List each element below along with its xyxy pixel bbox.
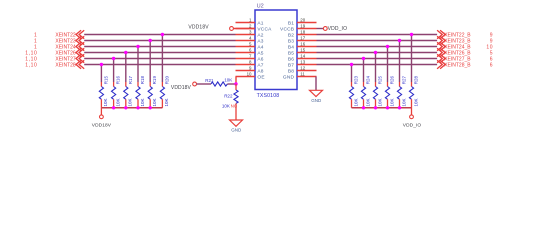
svg-text:VCCA: VCCA <box>257 27 272 33</box>
pin 4 stub <box>236 40 256 42</box>
svg-text:13: 13 <box>300 60 305 65</box>
svg-text:10: 10 <box>247 72 252 77</box>
svg-text:1,10: 1,10 <box>25 63 37 69</box>
wire XEINT22_B row <box>317 34 438 36</box>
junction XEINT26_B <box>374 51 377 54</box>
svg-text:A3: A3 <box>257 39 263 45</box>
svg-text:10K: 10K <box>389 98 394 106</box>
svg-text:R24: R24 <box>366 76 371 85</box>
chevron XEINT23 <box>76 36 81 44</box>
ground (R22) <box>230 120 243 126</box>
wire VCCB to VDD_IO <box>317 28 324 30</box>
svg-text:VDD18V: VDD18V <box>171 85 192 91</box>
svg-text:B5: B5 <box>288 51 294 57</box>
svg-text:B6: B6 <box>288 57 294 63</box>
svg-text:R16: R16 <box>116 76 121 85</box>
svg-text:R21: R21 <box>205 78 214 83</box>
junction rail <box>112 106 115 109</box>
wire drop XEINT22_B to resistor <box>411 35 413 83</box>
svg-text:A8: A8 <box>257 69 263 75</box>
wire XEINT27 row <box>84 58 235 60</box>
svg-text:VCCB: VCCB <box>280 27 294 33</box>
wire XEINT22 row <box>84 34 235 36</box>
junction XEINT23_B <box>398 39 401 42</box>
wire drop XEINT24_B to resistor <box>387 47 389 83</box>
svg-text:OE: OE <box>257 75 264 81</box>
chevron XEINT28 <box>76 60 81 68</box>
wire left pull-up rail <box>101 107 162 109</box>
wire R21 to OE node <box>227 83 236 85</box>
svg-text:R15: R15 <box>103 76 108 85</box>
resistor R24 10K <box>363 82 365 87</box>
ground (pin 11) <box>310 90 323 96</box>
power symbol circle VDD_IO <box>323 27 327 31</box>
svg-text:A5: A5 <box>257 51 263 57</box>
svg-text:GND: GND <box>311 98 322 103</box>
svg-text:A2: A2 <box>257 33 263 39</box>
power VDD_IO (right rail) <box>411 108 413 115</box>
wire XEINT28 row <box>84 64 235 66</box>
svg-text:NC: NC <box>231 103 238 108</box>
pin 2 stub <box>236 28 256 30</box>
wire drop XEINT22 to resistor <box>161 35 163 83</box>
svg-text:R25: R25 <box>378 76 383 85</box>
resistor R18 10K <box>137 82 139 87</box>
wire drop XEINT27_B to resistor <box>363 59 365 83</box>
wire XEINT28_B row <box>317 64 438 66</box>
resistor R26 10K <box>387 82 389 87</box>
svg-text:U2: U2 <box>257 4 264 10</box>
chevron XEINT22 <box>76 30 81 38</box>
svg-text:B4: B4 <box>288 45 294 51</box>
IC U2 body (TXS0108 level shifter) <box>255 10 297 90</box>
junction XEINT24 <box>136 45 139 48</box>
svg-text:10K: 10K <box>140 98 145 106</box>
svg-text:R23: R23 <box>354 76 359 85</box>
junction XEINT26 <box>124 51 127 54</box>
resistor R20 10K <box>161 82 163 87</box>
junction rail <box>124 106 127 109</box>
junction XEINT28 <box>100 63 103 66</box>
pin 6 stub <box>236 52 256 54</box>
wire XEINT24_B row <box>317 46 438 48</box>
wire OE node up to pin 10 <box>235 77 237 85</box>
junction rail <box>136 106 139 109</box>
svg-text:VDD_IO: VDD_IO <box>328 26 348 32</box>
chevron XEINT28_B <box>437 60 442 68</box>
wire drop XEINT23_B to resistor <box>399 41 401 83</box>
chevron XEINT23_B <box>437 36 442 44</box>
junction XEINT22_B <box>410 33 413 36</box>
svg-text:GND: GND <box>283 75 295 81</box>
resistor R16 10K <box>113 82 115 87</box>
svg-text:R19: R19 <box>152 76 157 85</box>
pin 15 stub <box>297 52 317 54</box>
junction XEINT23 <box>149 39 152 42</box>
wire right pull-up rail <box>352 107 412 109</box>
resistor R27 10K <box>399 82 401 87</box>
pin 11 stub <box>297 76 317 78</box>
resistor R21 10K <box>211 82 227 86</box>
svg-text:18: 18 <box>300 30 305 35</box>
resistor R23 10K <box>351 82 353 87</box>
wire VDD18V to R21 <box>197 83 212 85</box>
junction OE node <box>234 82 237 85</box>
svg-text:R27: R27 <box>402 76 407 85</box>
pin 18 stub <box>297 34 317 36</box>
svg-text:R26: R26 <box>390 76 395 85</box>
svg-text:11: 11 <box>300 72 305 77</box>
pin 9 stub <box>236 70 256 72</box>
svg-text:10K: 10K <box>353 98 358 106</box>
chevron XEINT24 <box>76 42 81 50</box>
svg-text:10K: 10K <box>401 98 406 106</box>
svg-text:10K: 10K <box>152 98 157 106</box>
junction rail <box>362 106 365 109</box>
pin 5 stub <box>236 46 256 48</box>
junction rail <box>386 106 389 109</box>
svg-text:B1: B1 <box>288 21 294 27</box>
svg-text:10K: 10K <box>224 78 232 83</box>
pin 13 stub <box>297 64 317 66</box>
svg-text:A1: A1 <box>257 21 263 27</box>
svg-text:TXS0108: TXS0108 <box>257 93 280 99</box>
junction rail <box>374 106 377 109</box>
resistor R28 10K <box>411 82 413 87</box>
junction XEINT28_B <box>350 63 353 66</box>
wire VDD18V to VCCA <box>233 28 255 30</box>
wire drop XEINT23 to resistor <box>149 41 151 83</box>
pin 8 stub <box>236 64 256 66</box>
pin 12 stub <box>297 70 317 72</box>
power symbol circle VDD18V R21 <box>193 82 197 86</box>
pin 19 stub <box>297 28 317 30</box>
svg-text:14: 14 <box>300 54 305 59</box>
wire GND pin 11 <box>315 77 317 91</box>
chevron XEINT22_B <box>437 30 442 38</box>
svg-text:B8: B8 <box>288 69 294 75</box>
wire drop XEINT28 to resistor <box>100 65 102 83</box>
wire XEINT24 row <box>84 46 235 48</box>
svg-text:XEINT28: XEINT28 <box>55 63 76 69</box>
svg-text:R28: R28 <box>414 76 419 85</box>
junction rail <box>398 106 401 109</box>
chevron XEINT27 <box>76 54 81 62</box>
svg-text:R20: R20 <box>164 76 169 85</box>
svg-text:B2: B2 <box>288 33 294 39</box>
svg-text:B7: B7 <box>288 63 294 69</box>
svg-text:A4: A4 <box>257 45 263 51</box>
svg-text:VDD_IO: VDD_IO <box>403 123 422 129</box>
chevron XEINT26_B <box>437 48 442 56</box>
wire drop XEINT24 to resistor <box>137 47 139 83</box>
svg-text:19: 19 <box>300 24 305 29</box>
resistor R19 10K <box>149 82 151 87</box>
resistor R22 10K <box>235 84 237 90</box>
power symbol circle VDD18V <box>230 27 234 31</box>
chevron XEINT24_B <box>437 42 442 50</box>
svg-text:10K: 10K <box>413 98 418 106</box>
wire drop XEINT28_B to resistor <box>351 65 353 83</box>
junction XEINT24_B <box>386 45 389 48</box>
chevron XEINT27_B <box>437 54 442 62</box>
junction XEINT22 <box>161 33 164 36</box>
resistor R15 10K <box>100 82 102 87</box>
chevron XEINT26 <box>76 48 81 56</box>
svg-text:10K: 10K <box>222 103 230 108</box>
wire drop XEINT26_B to resistor <box>375 53 377 83</box>
svg-text:B3: B3 <box>288 39 294 45</box>
svg-text:10K: 10K <box>115 98 120 106</box>
svg-text:VDD18V: VDD18V <box>188 25 209 31</box>
pin 20 stub <box>297 22 317 24</box>
wire XEINT26 row <box>84 52 235 54</box>
svg-text:10K: 10K <box>103 98 108 106</box>
pin 10 stub <box>236 76 256 78</box>
resistor R25 10K <box>375 82 377 87</box>
pin 16 stub <box>297 46 317 48</box>
svg-text:12: 12 <box>300 66 305 71</box>
pin 3 stub <box>236 34 256 36</box>
pin 14 stub <box>297 58 317 60</box>
svg-text:VDD18V: VDD18V <box>92 122 112 128</box>
svg-text:R22: R22 <box>224 93 233 98</box>
svg-text:15: 15 <box>300 48 305 53</box>
power symbol circle VDD18V rail <box>100 115 104 119</box>
svg-text:A6: A6 <box>257 57 263 63</box>
resistor R17 10K <box>125 82 127 87</box>
svg-text:16: 16 <box>300 42 305 47</box>
wire drop XEINT26 to resistor <box>125 53 127 83</box>
pin 17 stub <box>297 40 317 42</box>
svg-text:17: 17 <box>300 36 305 41</box>
junction XEINT27_B <box>362 57 365 60</box>
wire XEINT27_B row <box>317 58 438 60</box>
pin 1 stub <box>236 22 256 24</box>
pin 7 stub <box>236 58 256 60</box>
svg-text:6: 6 <box>490 63 493 69</box>
svg-text:10K: 10K <box>128 98 133 106</box>
power VDD18V (left rail) <box>100 108 102 115</box>
svg-text:R18: R18 <box>140 76 145 85</box>
svg-text:GND: GND <box>231 128 242 133</box>
wire XEINT26_B row <box>317 52 438 54</box>
wire XEINT23_B row <box>317 40 438 42</box>
svg-text:20: 20 <box>300 18 305 23</box>
svg-text:R17: R17 <box>128 76 133 85</box>
svg-text:A7: A7 <box>257 63 263 69</box>
power symbol circle VDD_IO rail <box>410 115 414 119</box>
junction rail <box>149 106 152 109</box>
svg-text:10K: 10K <box>377 98 382 106</box>
svg-text:10K: 10K <box>365 98 370 106</box>
wire drop XEINT27 to resistor <box>113 59 115 83</box>
junction XEINT27 <box>112 57 115 60</box>
wire XEINT23 row <box>84 40 235 42</box>
svg-text:10K: 10K <box>164 98 169 106</box>
svg-text:XEINT28_B: XEINT28_B <box>444 63 471 69</box>
